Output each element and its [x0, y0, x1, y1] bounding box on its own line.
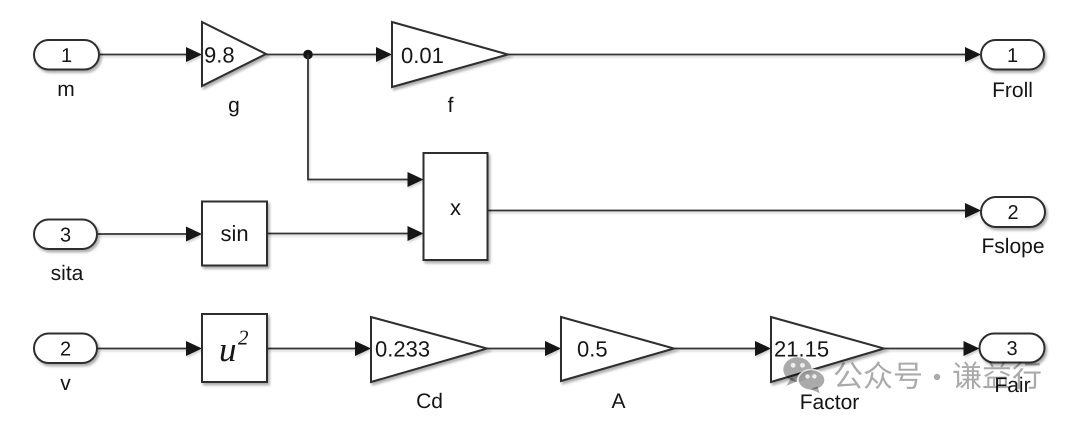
svg-text:2: 2	[1007, 202, 1018, 224]
wire branch from node to product input 1	[308, 55, 424, 188]
gain f	[392, 22, 508, 87]
svg-text:0.5: 0.5	[577, 337, 608, 362]
svg-text:m: m	[57, 78, 75, 101]
svg-text:Cd: Cd	[416, 390, 443, 413]
label A	[611, 390, 625, 413]
wire v to u2	[98, 341, 202, 356]
label sita	[51, 262, 84, 285]
watermark wechat logo	[783, 357, 826, 393]
svg-text:3: 3	[1006, 338, 1017, 360]
svg-text:x: x	[450, 195, 461, 220]
svg-text:1: 1	[61, 45, 72, 67]
product block x	[424, 153, 488, 260]
svg-text:2: 2	[238, 326, 249, 350]
wire sita to sin	[98, 227, 202, 242]
wire product to Fslope	[488, 203, 982, 218]
label Cd	[416, 390, 443, 413]
svg-text:21.15: 21.15	[774, 337, 829, 362]
inport 2 v	[34, 334, 97, 364]
wire m to g	[99, 47, 202, 62]
label Froll	[992, 79, 1033, 102]
label m	[57, 78, 75, 101]
svg-text:g: g	[228, 94, 240, 117]
svg-text:1: 1	[1007, 45, 1018, 67]
trig function block sin	[202, 202, 267, 266]
wire sin to product input 2	[267, 226, 424, 241]
wire f to Froll	[508, 47, 981, 62]
label g	[228, 94, 240, 117]
svg-text:Factor: Factor	[800, 391, 860, 414]
gain Cd	[371, 317, 487, 382]
gain A	[561, 317, 674, 381]
svg-text:sin: sin	[220, 221, 248, 246]
math function block u squared	[202, 314, 267, 382]
label v	[60, 372, 71, 395]
svg-text:3: 3	[60, 224, 71, 246]
wire A to Factor	[674, 341, 771, 356]
svg-text:9.8: 9.8	[204, 42, 235, 67]
outport 3 Fair	[980, 334, 1045, 363]
svg-text:Fslope: Fslope	[981, 235, 1044, 258]
label f	[448, 94, 454, 117]
wire Cd to A	[487, 341, 561, 356]
svg-text:Froll: Froll	[992, 79, 1033, 102]
svg-text:2: 2	[60, 338, 71, 360]
wire u2 to Cd	[267, 341, 371, 356]
outport 2 Fslope	[981, 197, 1045, 227]
junction node dot	[303, 50, 313, 60]
gain g	[202, 22, 266, 86]
svg-text:0.233: 0.233	[375, 337, 430, 362]
svg-text:f: f	[448, 94, 454, 117]
watermark text 公众号·谦益行	[835, 361, 1041, 389]
label Fslope	[981, 235, 1044, 258]
label Fair	[994, 374, 1030, 397]
inport 3 sita	[34, 220, 97, 250]
wire g to f	[266, 47, 392, 62]
svg-text:v: v	[60, 372, 71, 395]
svg-text:A: A	[611, 390, 625, 413]
gain Factor	[771, 317, 884, 382]
label Factor	[800, 391, 860, 414]
svg-text:u: u	[219, 330, 237, 369]
outport 1 Froll	[981, 40, 1044, 70]
svg-text:sita: sita	[51, 262, 84, 285]
wire Factor to Fair	[884, 341, 980, 356]
inport 1 m	[34, 40, 99, 70]
svg-text:0.01: 0.01	[401, 43, 444, 68]
